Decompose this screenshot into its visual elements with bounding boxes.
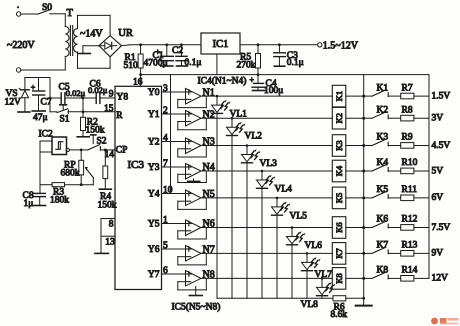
relay coil K8	[332, 268, 365, 290]
svg-text:2: 2	[163, 106, 168, 116]
svg-text:~14V: ~14V	[80, 29, 103, 40]
wire C5 to C6	[65, 97, 96, 100]
capacitor C8 1u	[33, 185, 46, 206]
ground stub at bridge AC node	[78, 46, 99, 54]
svg-text:1.5~12V: 1.5~12V	[323, 40, 359, 51]
svg-text:150k: 150k	[86, 126, 105, 136]
resistor R7	[388, 83, 429, 98]
wire S0 to transformer	[52, 13, 66, 15]
svg-text:K1: K1	[334, 91, 344, 101]
svg-text:K6: K6	[377, 215, 389, 225]
pin 14 label CP	[105, 145, 128, 160]
svg-text:8: 8	[109, 219, 114, 229]
svg-text:~220V: ~220V	[7, 40, 35, 51]
wire S1 to pin 15	[68, 110, 115, 113]
wire N5 output to K5	[201, 197, 332, 200]
label S0	[42, 3, 52, 13]
resistor R10	[388, 158, 429, 174]
resistor R1	[138, 43, 143, 74]
op-amp buffer N3	[186, 137, 215, 154]
feedback wire N6	[178, 228, 207, 240]
wire common rail	[139, 73, 429, 76]
wire N4 output to K4	[201, 170, 332, 173]
pin 15 label R	[104, 104, 123, 121]
resistor R2 150k	[77, 112, 89, 137]
svg-text:R14: R14	[402, 266, 418, 276]
ground under N8	[189, 286, 202, 295]
label 1.5V	[432, 91, 451, 101]
svg-text:R10: R10	[402, 158, 418, 168]
svg-text:47μ: 47μ	[33, 113, 48, 123]
op-amp buffer N5	[186, 189, 215, 205]
resistor R8	[388, 105, 429, 121]
label 6V	[432, 193, 444, 203]
IC2 output bubble	[66, 148, 69, 151]
label 9V	[432, 249, 444, 259]
op-amp buffer N1	[186, 87, 215, 104]
svg-text:K8: K8	[377, 266, 389, 276]
relay contact K8	[364, 266, 389, 279]
svg-text:VL5: VL5	[290, 211, 308, 221]
label S2	[97, 137, 107, 147]
label 7.5V	[432, 223, 451, 233]
IC3 pin Y7 wire	[148, 266, 186, 280]
svg-text:K2: K2	[334, 113, 344, 123]
label ~220V	[7, 40, 35, 51]
svg-text:K3: K3	[334, 140, 344, 150]
pushbutton S2	[88, 135, 101, 150]
label VS 12V	[5, 89, 22, 108]
svg-text:IC2: IC2	[39, 130, 54, 140]
svg-text:K4: K4	[377, 158, 389, 168]
svg-text:N2: N2	[203, 109, 215, 120]
op-amp buffer N2	[186, 109, 215, 126]
resistor R4 150k	[99, 150, 111, 189]
wire right voltage rail	[428, 75, 430, 279]
svg-text:150k: 150k	[98, 201, 117, 211]
svg-text:7: 7	[163, 159, 168, 169]
svg-text:6: 6	[163, 266, 168, 276]
svg-text:6V: 6V	[432, 193, 444, 203]
LED VL2	[227, 118, 263, 298]
wire LED cathode rail	[217, 297, 333, 299]
IC3 pin Y3 wire	[148, 159, 186, 173]
label R1 510	[124, 53, 139, 71]
relay contact K6	[364, 215, 389, 228]
svg-text:12V: 12V	[5, 98, 22, 108]
svg-text:IC3: IC3	[128, 159, 145, 171]
svg-text:K3: K3	[377, 133, 389, 143]
label 4.5V	[432, 141, 451, 151]
LED VL5	[272, 198, 308, 298]
svg-text:K7: K7	[377, 241, 389, 251]
svg-text:15: 15	[104, 104, 114, 114]
svg-text:4: 4	[163, 134, 168, 144]
svg-text:K8: K8	[334, 273, 344, 283]
svg-text:270k: 270k	[237, 61, 256, 71]
resistor R6 8.6k	[333, 296, 365, 301]
LED VL4	[257, 171, 293, 298]
svg-text:K6: K6	[334, 222, 344, 232]
svg-text:VL4: VL4	[275, 185, 293, 195]
IC3 pin Y6 wire	[148, 241, 186, 255]
capacitor C5 0.02u	[61, 93, 65, 104]
capacitor C2 0.1u	[176, 43, 188, 66]
svg-text:0.1μ: 0.1μ	[287, 58, 304, 68]
label C1 4700u	[144, 51, 168, 68]
relay contact K3	[364, 133, 389, 146]
svg-text:3V: 3V	[432, 114, 444, 124]
relay coil K4	[332, 160, 365, 182]
svg-text:680k: 680k	[61, 169, 80, 179]
relay coil K5	[332, 187, 365, 209]
label IC5(N5~N8)	[172, 301, 221, 312]
watermark logo	[431, 318, 458, 325]
svg-text:9: 9	[109, 90, 114, 100]
relay coil K1	[332, 85, 365, 107]
label R4 150k	[98, 192, 117, 211]
wire N6 output to K6	[201, 226, 332, 229]
op-amp buffer N7	[186, 245, 215, 261]
svg-text:Y7: Y7	[148, 270, 160, 280]
label 5V	[432, 166, 444, 176]
relay coil K3	[332, 135, 365, 157]
svg-text:Y2: Y2	[148, 138, 160, 148]
bridge rectifier UR diamond	[99, 36, 122, 57]
relay coil K2	[332, 107, 365, 129]
relay contact K7	[364, 241, 389, 254]
svg-text:N7: N7	[203, 245, 215, 256]
zener diode VS 12V	[18, 78, 30, 113]
svg-text:N5: N5	[203, 189, 215, 200]
wire relay common rail	[363, 75, 365, 306]
svg-text:5: 5	[163, 241, 168, 251]
resistor R9	[388, 133, 429, 149]
pins 8 13 to ground	[95, 219, 115, 254]
feedback wire N4	[178, 171, 207, 183]
svg-text:Y8: Y8	[117, 92, 129, 102]
resistor R5 270k	[256, 43, 261, 74]
op-amp buffer N6	[186, 219, 215, 236]
svg-text:Y5: Y5	[148, 220, 160, 230]
svg-text:1: 1	[163, 216, 168, 226]
IC2 left pins	[40, 141, 52, 185]
label R5 270k	[237, 53, 256, 71]
wire S2 to pin 14	[100, 149, 115, 152]
svg-text:VL6: VL6	[305, 241, 323, 251]
wire terminal to S0	[21, 13, 38, 15]
svg-text:N8: N8	[203, 270, 215, 281]
ground under N4	[188, 179, 200, 181]
label R3 180k	[50, 188, 69, 206]
svg-text:5V: 5V	[432, 166, 444, 176]
wire 12V rail	[25, 77, 50, 79]
svg-text:R7: R7	[402, 83, 413, 93]
pushbutton S1	[50, 105, 68, 114]
svg-text:R9: R9	[402, 133, 413, 143]
svg-text:0.02μ: 0.02μ	[66, 88, 86, 98]
capacitor C7 47u	[31, 78, 45, 112]
svg-text:R12: R12	[402, 215, 418, 225]
svg-text:IC5(N5~N8): IC5(N5~N8)	[172, 301, 221, 312]
terminal bottom ~220V	[16, 68, 20, 72]
IC3 box	[115, 86, 162, 289]
IC3 pin Y0 wire	[148, 84, 186, 98]
capacitor C3 0.1u	[274, 43, 286, 66]
svg-text:R13: R13	[402, 241, 418, 251]
svg-text:1.5V: 1.5V	[432, 91, 451, 101]
resistor R3 180k	[52, 183, 93, 187]
svg-text:IC4(N1~N4): IC4(N1~N4)	[198, 76, 247, 87]
relay contact K2	[364, 105, 389, 118]
label C5 0.02u	[59, 83, 86, 98]
LED VL8	[301, 278, 336, 310]
IC2 box with schmitt symbol	[52, 137, 67, 155]
wire secondary top to bridge	[78, 15, 111, 35]
resistor R14	[388, 266, 429, 282]
wire 12V rail corner down	[49, 78, 52, 112]
relay contact K1	[364, 83, 389, 96]
svg-text:K5: K5	[334, 193, 344, 203]
wire IC2 feedback node	[40, 184, 52, 186]
svg-text:S1: S1	[60, 115, 70, 125]
svg-text:10: 10	[163, 186, 173, 196]
svg-text:4700μ: 4700μ	[144, 58, 168, 68]
LED VL1	[212, 96, 248, 298]
svg-text:K5: K5	[377, 185, 389, 195]
svg-text:Y0: Y0	[148, 88, 160, 98]
pin 9 label Y8	[109, 90, 129, 103]
resistor R13	[388, 241, 429, 257]
svg-text:UR: UR	[118, 28, 133, 39]
label 3V	[432, 114, 444, 124]
wire N3 output to K3	[201, 144, 332, 147]
svg-text:CP: CP	[116, 145, 128, 155]
svg-text:VL2: VL2	[245, 132, 263, 142]
svg-text:Y6: Y6	[148, 245, 160, 255]
IC3 pin Y5 wire	[148, 216, 186, 230]
svg-text:VL8: VL8	[301, 300, 319, 310]
svg-text:N1: N1	[203, 87, 215, 98]
wire rail drop to buffers	[170, 75, 172, 194]
svg-text:N4: N4	[203, 162, 215, 173]
wire bridge output to IC1	[122, 44, 202, 47]
label C8 1u	[23, 191, 34, 209]
svg-text:8.6k: 8.6k	[331, 310, 348, 320]
capacitor C4 100u	[250, 75, 266, 91]
transformer T primary winding	[65, 14, 69, 70]
IC3 pin Y1 wire	[148, 106, 186, 120]
resistor R11	[388, 185, 429, 201]
label UR	[118, 28, 133, 39]
label IC3	[128, 159, 145, 171]
svg-text:IC1: IC1	[213, 39, 229, 50]
wire IC1 ground pin	[216, 54, 218, 75]
feedback wire N2	[178, 118, 207, 130]
svg-text:Y4: Y4	[148, 190, 160, 200]
svg-text:+: +	[250, 76, 255, 85]
label IC4(N1~N4)	[198, 76, 247, 87]
label 12V	[432, 274, 449, 284]
svg-text:R11: R11	[402, 185, 418, 195]
svg-text:S0: S0	[42, 3, 52, 13]
transformer core	[70, 26, 72, 56]
output terminal 1.5~12V	[318, 40, 359, 51]
relay contact K5	[364, 185, 389, 198]
svg-text:7.5V: 7.5V	[432, 223, 451, 233]
wire N2 output to K2	[201, 117, 332, 120]
wire IC2 output	[69, 149, 87, 152]
label C3 0.1u	[287, 51, 304, 68]
label C7 47u	[33, 98, 52, 124]
svg-text:C2: C2	[172, 46, 183, 56]
wire to C5	[50, 97, 61, 99]
svg-text:4.5V: 4.5V	[432, 141, 451, 151]
feedback wire N5	[178, 198, 207, 210]
wire secondary bottom to bridge	[78, 52, 111, 68]
svg-text:K2: K2	[377, 105, 389, 115]
svg-text:0.02μ: 0.02μ	[88, 85, 108, 95]
wire IC1 output	[240, 44, 318, 46]
svg-text:180k: 180k	[50, 196, 69, 206]
svg-text:1μ: 1μ	[24, 199, 34, 209]
label R6 8.6k	[331, 302, 348, 320]
potentiometer RP 680k	[79, 150, 94, 185]
relay coil K6	[332, 217, 365, 239]
svg-text:16: 16	[133, 78, 143, 88]
svg-text:Y3: Y3	[148, 163, 160, 173]
capacitor C6 0.02u	[96, 93, 100, 104]
label ~14V	[80, 29, 103, 40]
switch S0	[38, 10, 52, 14]
feedback wire N8	[178, 278, 207, 290]
bridge internal diode	[99, 42, 117, 49]
svg-text:VL3: VL3	[260, 159, 278, 169]
capacitor C1 4700u	[156, 43, 174, 66]
wire N1 output to K1	[201, 95, 332, 98]
svg-text:12V: 12V	[432, 274, 449, 284]
IC3 pin Y4 wire	[148, 186, 186, 200]
relay coil K7	[332, 243, 365, 265]
svg-text:13: 13	[105, 238, 115, 248]
svg-text:N6: N6	[203, 219, 215, 230]
label R2 150k	[86, 118, 105, 136]
svg-text:K4: K4	[334, 165, 344, 176]
label C4 100u	[264, 79, 283, 96]
svg-text:R8: R8	[402, 105, 413, 115]
svg-text:R: R	[116, 111, 123, 121]
feedback wire N1	[178, 96, 207, 108]
label IC2	[39, 130, 54, 140]
svg-text:100μ: 100μ	[264, 86, 283, 96]
svg-text:S2: S2	[97, 137, 107, 147]
relay contact K4	[364, 158, 389, 171]
wire bottom terminal to primary	[21, 69, 66, 71]
wire C5 junction to R row	[82, 98, 84, 112]
svg-text:K7: K7	[334, 248, 344, 258]
label RP 680k	[61, 161, 80, 179]
svg-text:K1: K1	[377, 83, 389, 93]
svg-text:14: 14	[105, 150, 115, 160]
resistor R12	[388, 215, 429, 231]
IC3 pin Y2 wire	[148, 134, 186, 148]
label S1	[60, 115, 70, 125]
wire C6 to pin 9	[100, 97, 115, 99]
label C2 0.1u	[172, 46, 201, 68]
ground main	[356, 305, 372, 307]
label T	[67, 8, 74, 19]
op-amp buffer N8	[186, 270, 215, 286]
op-amp buffer N4	[186, 162, 215, 179]
terminal top ~220V	[16, 6, 20, 16]
svg-text:3: 3	[163, 84, 168, 94]
feedback wire N3	[178, 146, 207, 158]
wire N8 output to K8	[201, 277, 332, 280]
transformer T secondary winding	[74, 29, 78, 53]
svg-text:9V: 9V	[432, 249, 444, 259]
svg-text:510: 510	[124, 61, 139, 71]
svg-text:T: T	[67, 8, 74, 19]
label C6 0.02u	[88, 80, 108, 96]
wire N7 output to K7	[201, 252, 332, 255]
svg-text:Y1: Y1	[148, 110, 160, 120]
regulator IC1	[201, 33, 240, 54]
LED VL6	[287, 228, 323, 299]
pin 16	[133, 75, 143, 88]
feedback wire N7	[178, 253, 207, 265]
LED VL7	[302, 253, 333, 298]
svg-text:N3: N3	[203, 137, 215, 148]
LED VL3	[242, 146, 278, 299]
svg-text:0.1μ: 0.1μ	[185, 58, 202, 68]
